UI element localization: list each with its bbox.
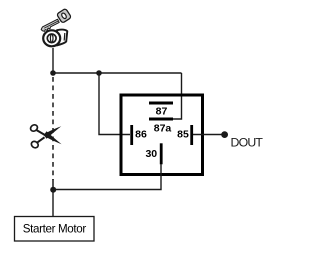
svg-text:87: 87	[156, 106, 168, 118]
relay pin 86 contact bar	[130, 125, 133, 145]
node B junction dot	[96, 70, 102, 76]
DOUT terminal dot	[221, 131, 228, 138]
svg-text:87a: 87a	[154, 123, 172, 135]
key head	[57, 8, 72, 23]
node C junction dot	[50, 187, 56, 193]
relay pin 30 contact bar	[160, 143, 163, 164]
wire: vertical drop into relay to pin 87a	[172, 73, 182, 119]
key shaft	[40, 19, 60, 32]
wire: pin 30 down and left	[53, 164, 161, 190]
starter motor block	[15, 217, 95, 242]
svg-text:86: 86	[135, 129, 147, 141]
wire: ignition to node A	[52, 48, 54, 73]
wire: node C to starter motor	[52, 190, 54, 216]
svg-text:30: 30	[145, 148, 157, 160]
dashed cut wire through scissors	[52, 77, 54, 180]
ignition barrel face	[43, 30, 60, 46]
relay K1 body	[121, 95, 203, 175]
relay pin 87a contact bar	[149, 118, 173, 121]
node A junction dot	[50, 70, 56, 76]
svg-text:85: 85	[177, 129, 189, 141]
wire: node A to relay top elbow	[53, 72, 182, 74]
svg-text:Starter Motor: Starter Motor	[23, 222, 87, 235]
svg-text:DOUT: DOUT	[231, 135, 264, 149]
relay pin 85 contact bar	[190, 125, 193, 145]
wire: pin 85 to DOUT	[193, 134, 224, 136]
wire: node B down to pin 86	[99, 73, 130, 135]
ignition barrel housing	[57, 30, 68, 46]
ignition key switch icon	[40, 8, 71, 46]
keyhole slot	[50, 34, 53, 42]
scissors (cut mark)	[29, 123, 61, 149]
relay pin 87 contact bar	[149, 102, 173, 105]
